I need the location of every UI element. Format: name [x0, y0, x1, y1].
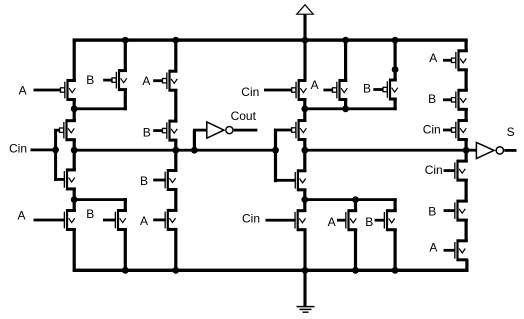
svg-text:B: B [143, 126, 151, 140]
svg-text:Cin: Cin [425, 163, 443, 177]
svg-text:A: A [429, 51, 437, 65]
svg-text:B: B [86, 207, 94, 221]
svg-text:Cin: Cin [9, 141, 27, 155]
svg-text:A: A [19, 83, 27, 97]
svg-text:A: A [328, 215, 336, 229]
svg-text:B: B [428, 205, 436, 219]
svg-text:A: A [18, 209, 26, 223]
svg-text:A: A [142, 74, 150, 88]
svg-text:Cin: Cin [241, 85, 259, 99]
svg-text:B: B [428, 92, 436, 106]
svg-text:B: B [140, 174, 148, 188]
svg-text:Cout: Cout [231, 109, 257, 123]
svg-text:B: B [365, 215, 373, 229]
svg-text:A: A [140, 214, 148, 228]
svg-text:A: A [311, 78, 319, 92]
svg-text:Cin: Cin [242, 211, 260, 225]
svg-text:A: A [429, 241, 437, 255]
svg-text:Cin: Cin [423, 122, 441, 136]
svg-text:S: S [507, 125, 515, 139]
svg-text:B: B [363, 81, 371, 95]
svg-text:B: B [86, 73, 94, 87]
